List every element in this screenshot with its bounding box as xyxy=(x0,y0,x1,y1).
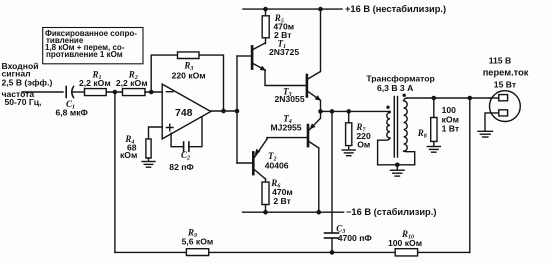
wire T2 emitter to T4 base xyxy=(267,138,307,139)
svg-text:перем.ток: перем.ток xyxy=(483,68,529,78)
wire T3/T4 emitters to output node xyxy=(320,101,322,118)
label R4 value xyxy=(120,134,137,160)
svg-text:Ом: Ом xyxy=(357,140,370,150)
socket outlet circle xyxy=(490,91,521,122)
wire T1 base xyxy=(237,55,251,57)
node T3 collector rail xyxy=(318,7,323,12)
ground below R8 xyxy=(427,147,440,153)
transistor Q2 T2 40406 xyxy=(253,139,267,179)
node C3 tap xyxy=(330,109,335,114)
svg-text:1 Вт: 1 Вт xyxy=(442,124,459,134)
label R5 value xyxy=(273,13,294,40)
wire transformer bottom bus xyxy=(378,164,415,166)
label R2 value xyxy=(116,70,148,88)
label callout text xyxy=(45,29,137,59)
label C3 value xyxy=(336,224,372,244)
wire base bus xyxy=(236,56,238,163)
svg-text:кОм: кОм xyxy=(120,150,137,160)
label T4 type xyxy=(271,114,302,133)
capacitor C2 xyxy=(184,142,189,151)
label R8 value xyxy=(417,105,459,140)
resistor R2 xyxy=(123,89,163,96)
svg-text:2N3055: 2N3055 xyxy=(275,94,305,104)
label input signal xyxy=(2,61,53,107)
label C2 value xyxy=(169,150,194,172)
svg-text:6,8 мкФ: 6,8 мкФ xyxy=(56,108,89,118)
node R6 -16V rail xyxy=(263,210,268,215)
svg-text:2 Вт: 2 Вт xyxy=(273,196,290,206)
wire T4 collector to -16V rail xyxy=(318,148,320,212)
svg-text:50-70 Гц,: 50-70 Гц, xyxy=(5,97,42,107)
wire feedback loop R3 xyxy=(151,55,223,111)
socket upper slot xyxy=(490,95,508,101)
node output emitters xyxy=(318,109,323,114)
resistor R6 xyxy=(262,179,269,212)
ground below socket xyxy=(478,131,493,137)
resistor R1 xyxy=(85,89,123,96)
ground transformer center xyxy=(391,165,405,176)
svg-text:противление 1 кОм: противление 1 кОм xyxy=(46,50,123,59)
transformer secondary winding xyxy=(404,98,415,165)
transformer polarity dot secondary xyxy=(403,94,406,97)
op-amp U1 748 xyxy=(162,84,211,139)
svg-text:2N3725: 2N3725 xyxy=(269,47,299,57)
capacitor C3 xyxy=(325,233,339,252)
svg-text:5,6 кОм: 5,6 кОм xyxy=(182,237,214,247)
wire T1 emitter to T3 base xyxy=(265,70,306,86)
node R7 tap xyxy=(346,109,351,114)
label R9 value xyxy=(182,228,214,247)
svg-text:748: 748 xyxy=(175,107,193,119)
svg-text:2,5 В (эфф.): 2,5 В (эфф.) xyxy=(2,77,53,87)
wire C2 loop xyxy=(171,117,202,147)
label R3 value xyxy=(172,61,206,81)
transistor Q4 T4 MJ2955 xyxy=(308,118,321,148)
svg-text:+16 В (нестабилизир.): +16 В (нестабилизир.) xyxy=(345,4,446,14)
label R1 value xyxy=(79,70,111,88)
svg-text:4700 пФ: 4700 пФ xyxy=(338,233,373,243)
resistor R4 xyxy=(146,139,151,161)
transistor Q3 T3 2N3055 xyxy=(307,72,321,101)
resistor R10 xyxy=(395,249,417,256)
wire output to transformer xyxy=(321,110,391,112)
svg-text:82 пФ: 82 пФ xyxy=(169,162,194,172)
label T2 type xyxy=(265,151,289,171)
resistor R7 xyxy=(346,111,352,149)
svg-text:Трансформатор: Трансформатор xyxy=(366,74,434,84)
svg-text:6,3 В 3 А: 6,3 В 3 А xyxy=(377,83,413,93)
svg-text:2,2 кОм: 2,2 кОм xyxy=(116,78,148,88)
label T3 type xyxy=(275,87,305,105)
svg-text:R8: R8 xyxy=(417,128,427,140)
resistor R8 xyxy=(431,98,437,146)
ground below R4 xyxy=(142,162,155,168)
ground below R7 xyxy=(342,150,355,156)
svg-text:100: 100 xyxy=(442,105,457,115)
node C3 bottom rail xyxy=(330,250,335,255)
svg-text:15 Вт: 15 Вт xyxy=(494,80,516,90)
label T1 type xyxy=(269,39,299,58)
wire T2 base xyxy=(237,162,252,164)
label transformer xyxy=(366,74,434,94)
node T4 collector rail xyxy=(317,210,322,215)
svg-text:115 В: 115 В xyxy=(489,56,511,66)
wire feedback right vertical xyxy=(469,98,471,252)
transistor Q1 T1 2N3725 xyxy=(252,43,265,70)
node R5 +16V rail xyxy=(263,7,268,12)
label 115V output xyxy=(483,56,529,90)
svg-text:−16 В (стабилизир.): −16 В (стабилизир.) xyxy=(346,207,436,217)
wire input line xyxy=(22,91,63,93)
wire op-amp + input xyxy=(149,127,163,139)
node output/feedback xyxy=(221,109,226,114)
node A junction R1/R2 xyxy=(113,90,118,95)
svg-text:2,2 кОм: 2,2 кОм xyxy=(79,78,111,88)
label R7 value xyxy=(355,122,371,150)
label R10 value xyxy=(388,229,422,248)
node transformer ground xyxy=(395,163,400,168)
svg-text:40406: 40406 xyxy=(265,161,289,171)
label R6 value xyxy=(270,178,293,206)
label C1 value xyxy=(56,99,89,118)
wire -16V rail xyxy=(243,211,344,213)
svg-text:220 кОм: 220 кОм xyxy=(172,70,206,80)
wire C3 branch upper xyxy=(331,111,333,233)
socket lower slot xyxy=(485,110,508,131)
svg-text:100 кОм: 100 кОм xyxy=(388,238,422,248)
resistor R5 xyxy=(262,9,269,43)
wire T3 collector to +16V xyxy=(320,9,322,71)
node B junction R2/R3/op-amp xyxy=(149,90,154,95)
transformer primary winding xyxy=(378,111,390,164)
transformer core xyxy=(394,97,397,158)
wire secondary top to socket xyxy=(407,97,499,99)
transformer polarity dot primary xyxy=(386,106,389,109)
callout box fixed resistance note xyxy=(43,28,143,64)
resistor R9 xyxy=(186,249,208,256)
node R8 tap xyxy=(432,96,437,101)
wire bottom rail xyxy=(115,251,470,253)
wire +16V rail xyxy=(243,8,342,10)
node feedback tap xyxy=(468,96,473,101)
node output/bus xyxy=(235,109,240,114)
wire op-amp output xyxy=(211,110,237,112)
capacitor C1 xyxy=(66,87,85,98)
resistor R3 xyxy=(178,52,200,59)
wire node A to bottom rail xyxy=(114,92,116,252)
svg-text:MJ2955: MJ2955 xyxy=(271,123,302,133)
